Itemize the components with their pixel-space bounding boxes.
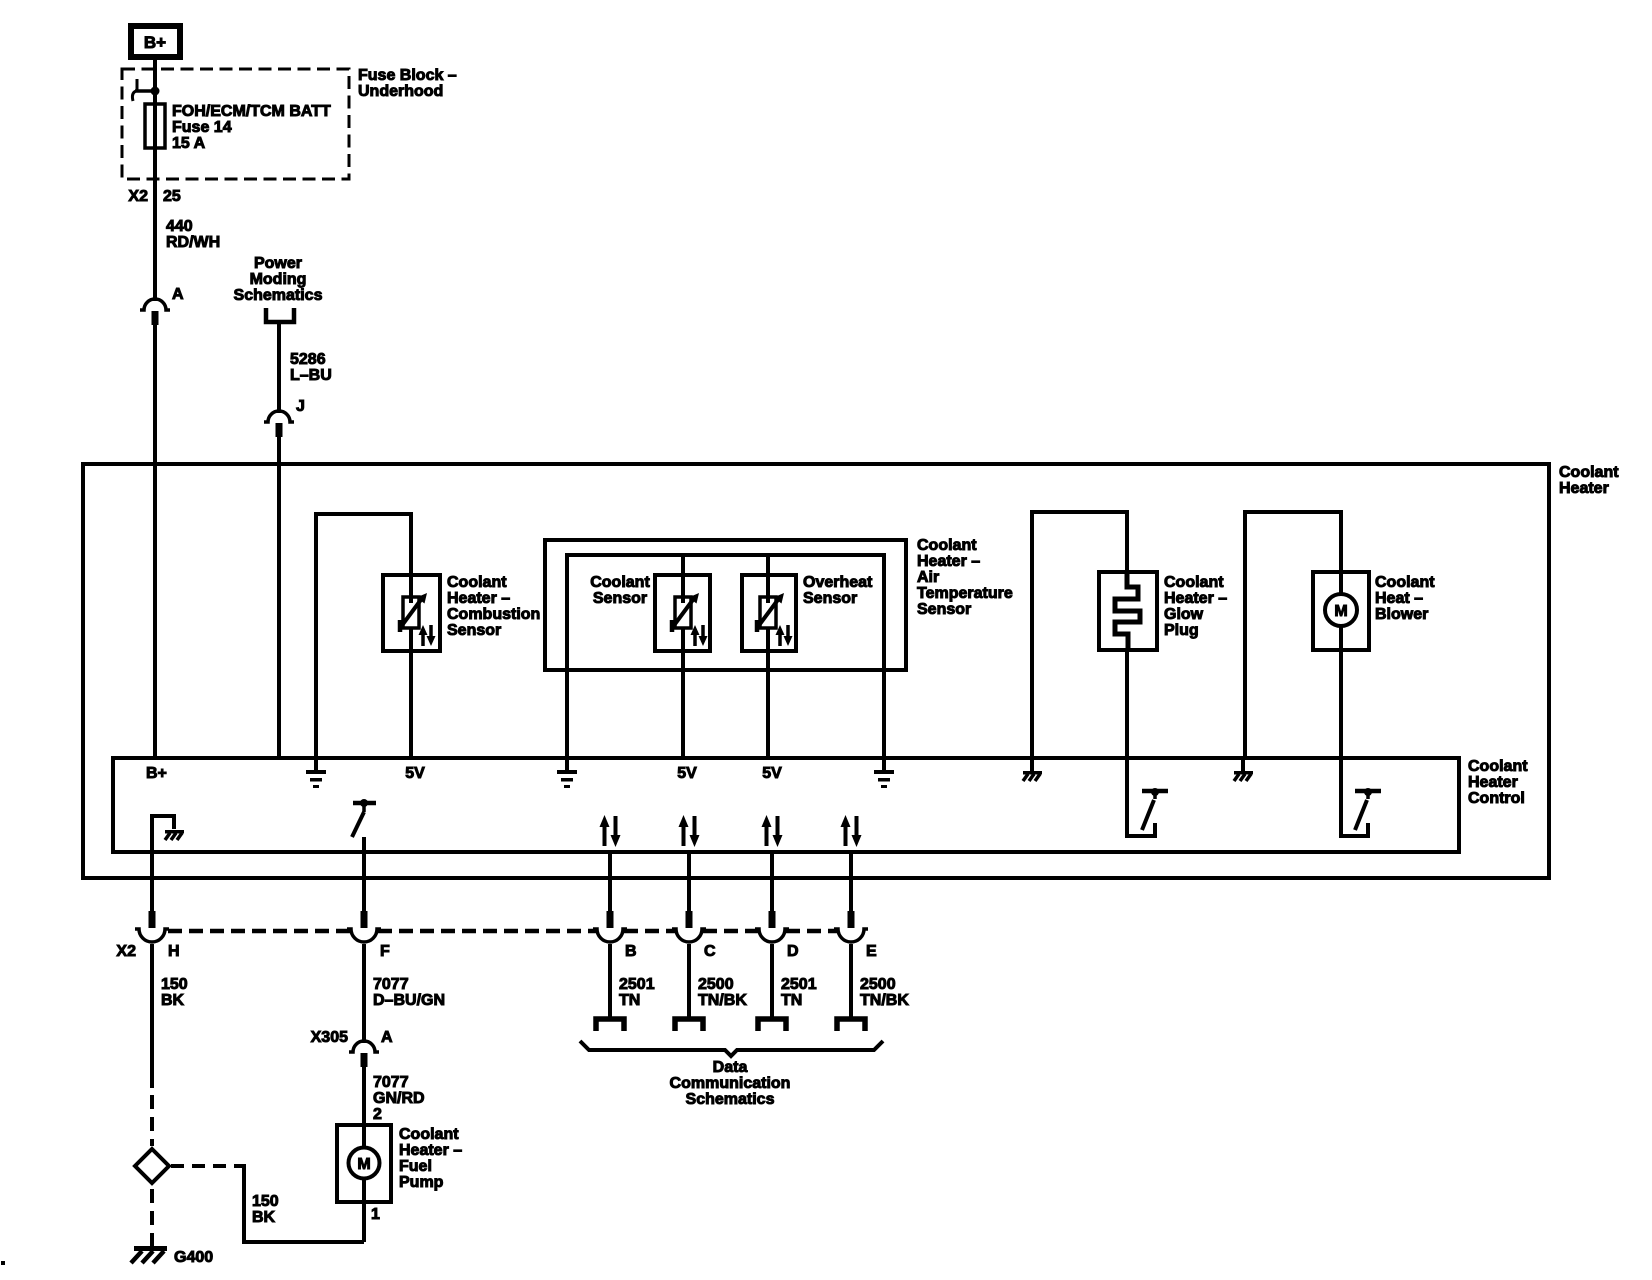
wire D to data bus (2501 TN) [770,944,774,1019]
svg-text:C: C [704,943,716,960]
battery feed terminal B+ [131,26,180,57]
bus bar tap [136,79,139,91]
wire coolant sensor to 5V [681,555,685,758]
wire B+ through fuse to connector A (circuit 440 RD/WH) [153,59,157,301]
earth ground (combustion sensor return) [314,758,318,770]
thermistor (coolant sensor) [675,597,691,628]
blower motor M [1339,572,1343,595]
ground G400 [134,1246,167,1251]
data arrows terminal B [603,824,607,846]
svg-text:Power: Power [254,255,302,272]
svg-text:Coolant: Coolant [917,537,977,554]
svg-text:TN: TN [619,992,640,1009]
svg-text:E: E [866,943,877,960]
fuel pump motor M [349,1148,380,1179]
svg-text:Temperature: Temperature [917,585,1013,602]
svg-text:TN/BK: TN/BK [698,992,747,1009]
internal ground (150 BK output) [152,816,174,852]
svg-text:Fuse Block –: Fuse Block – [358,67,457,84]
svg-text:2500: 2500 [860,976,896,993]
svg-text:TN: TN [781,992,802,1009]
wire overheat sensor to 5V [766,555,770,758]
svg-text:D: D [787,943,799,960]
dashed wire splice to G400 [150,1189,154,1246]
wire connector H down (150 BK) [150,944,154,1088]
svg-text:5286: 5286 [290,351,326,368]
svg-text:Overheat: Overheat [803,574,873,591]
wire data B to connector [608,852,612,914]
wire blower ground loop [1245,512,1341,758]
wire bracket to connector J (circuit 5286 L-BU) [277,324,281,413]
svg-text:Coolant: Coolant [1375,574,1435,591]
svg-text:Coolant: Coolant [590,574,650,591]
svg-text:H: H [168,943,180,960]
off-page bracket Power Moding [266,308,294,322]
svg-text:RD/WH: RD/WH [166,234,220,251]
svg-text:F: F [380,943,390,960]
off-page terminal E [837,1019,865,1031]
svg-text:B+: B+ [144,33,166,52]
svg-text:5V: 5V [677,765,697,782]
svg-text:Underhood: Underhood [358,83,443,100]
svg-text:Coolant: Coolant [447,574,507,591]
dashed wire splice to pump return [171,1164,238,1168]
sensor box Overheat Sensor [742,575,796,651]
dashed wire to splice [150,1095,154,1146]
svg-text:7077: 7077 [373,976,409,993]
svg-text:Heater: Heater [1559,480,1609,497]
thermistor (combustion sensor) [403,597,419,628]
svg-text:7077: 7077 [373,1074,409,1091]
svg-text:Communication: Communication [670,1075,791,1092]
switch (blower driver) [1341,758,1368,836]
connector H [149,911,156,928]
wire data C to connector [687,852,691,914]
svg-text:5V: 5V [762,765,782,782]
connector X305 A [349,1041,379,1052]
svg-text:X305: X305 [311,1029,348,1046]
svg-text:Sensor: Sensor [803,590,857,607]
artifact dot [1,1261,5,1265]
sensor box Coolant Sensor [655,575,710,651]
off-page terminal B [596,1019,624,1031]
svg-text:Fuse 14: Fuse 14 [172,119,232,136]
brace Data Communication [580,1041,883,1056]
module box Coolant Heater Control [113,758,1459,852]
splice (diamond) [135,1149,169,1183]
component box Coolant Heat - Blower [1313,572,1369,650]
wire control ground to connector H [150,852,154,914]
junction dot [151,87,160,96]
component box Coolant Heater - Fuel Pump [337,1125,391,1202]
wire pump return (150 BK) [238,1166,364,1242]
svg-text:Control: Control [1468,790,1525,807]
earth ground (air temp sensor return left) [565,758,569,770]
svg-text:2: 2 [373,1106,382,1123]
svg-text:Schematics: Schematics [234,287,323,304]
svg-text:Moding: Moding [250,271,307,288]
wire B to data bus (2501 TN) [608,944,612,1019]
off-page terminal D [758,1019,786,1031]
svg-text:GN/RD: GN/RD [373,1090,425,1107]
svg-text:Data: Data [713,1059,748,1076]
svg-text:TN/BK: TN/BK [860,992,909,1009]
svg-text:Glow: Glow [1164,606,1204,623]
svg-text:Coolant: Coolant [1468,758,1528,775]
wire glow plug ground loop [1032,512,1127,758]
data arrows terminal E [844,824,848,846]
connector B [607,911,614,928]
wire glow plug to switch [1125,650,1129,758]
svg-text:5V: 5V [405,765,425,782]
thermistor (overheat sensor) [760,597,776,628]
wire blower to switch [1339,626,1343,758]
svg-text:Coolant: Coolant [1164,574,1224,591]
signal arrows (coolant sensor) [693,633,697,646]
svg-text:Sensor: Sensor [593,590,647,607]
svg-text:25: 25 [163,188,181,205]
svg-text:Blower: Blower [1375,606,1428,623]
connector J (in-line) [264,411,294,422]
svg-text:X2: X2 [128,188,148,205]
svg-text:M: M [357,1156,370,1173]
signal arrows (combustion sensor) [421,633,425,646]
sensor enclosure Coolant Heater - Air Temperature Sensor [545,540,906,670]
svg-text:2501: 2501 [781,976,817,993]
svg-text:B: B [625,943,637,960]
svg-text:2501: 2501 [619,976,655,993]
svg-text:D–BU/GN: D–BU/GN [373,992,445,1009]
svg-text:Fuel: Fuel [399,1158,432,1175]
wire data D to connector [770,852,774,914]
sensor box Coolant Heater - Combustion Sensor [383,575,440,651]
chassis ground (blower return) [1241,758,1245,771]
svg-text:Heater –: Heater – [399,1142,462,1159]
svg-text:Heater: Heater [1468,774,1518,791]
svg-text:Pump: Pump [399,1174,444,1191]
connector D [769,911,776,928]
svg-text:150: 150 [161,976,188,993]
connector X2 boundary (dashed) [168,929,351,934]
wire combustion sensor ground loop [316,514,411,758]
svg-text:Sensor: Sensor [447,622,501,639]
svg-text:G400: G400 [174,1249,213,1266]
svg-text:A: A [172,286,184,303]
signal arrows (overheat sensor) [778,633,782,646]
svg-text:FOH/ECM/TCM BATT: FOH/ECM/TCM BATT [172,103,331,120]
connector A (in-line) [140,299,170,310]
fuse F14 15A [145,104,165,148]
chassis ground (glow plug return) [1030,758,1034,771]
wire fuel pump to return [362,1179,366,1242]
wire C to data bus (2500 TN/BK) [687,944,691,1019]
svg-text:J: J [296,398,305,415]
svg-text:440: 440 [166,218,193,235]
svg-text:1: 1 [371,1206,380,1223]
svg-text:2500: 2500 [698,976,734,993]
svg-text:Coolant: Coolant [1559,464,1619,481]
svg-text:X2: X2 [116,943,136,960]
svg-text:A: A [381,1029,393,1046]
earth ground (air temp sensor return right) [882,758,886,770]
svg-text:Coolant: Coolant [399,1126,459,1143]
svg-text:BK: BK [161,992,185,1009]
wire X305 to fuel pump (7077 GN/RD) [362,1067,366,1147]
svg-text:B+: B+ [146,765,167,782]
wire connector J to coolant heater control [277,437,281,758]
svg-text:M: M [1334,603,1347,620]
svg-text:Air: Air [917,569,939,586]
data arrows terminal D [765,824,769,846]
fuse block underhood (dashed box) [122,69,349,179]
wire connector A to coolant heater control B+ [153,325,157,758]
svg-text:Plug: Plug [1164,622,1199,639]
wire data E to connector [849,852,853,914]
connector C [686,911,693,928]
svg-text:15 A: 15 A [172,135,206,152]
connector E [848,911,855,928]
svg-text:Sensor: Sensor [917,601,971,618]
switch (fuel pump driver) [353,801,376,806]
wire combustion sensor to 5V [409,575,413,758]
glow plug heating element [1115,572,1140,650]
svg-text:Heater –: Heater – [1164,590,1227,607]
off-page terminal C [675,1019,703,1031]
component box Coolant Heater [83,464,1549,878]
svg-text:Heat –: Heat – [1375,590,1423,607]
svg-text:L–BU: L–BU [290,367,332,384]
svg-text:BK: BK [252,1209,276,1226]
wire connector F down (7077 D-BU/GN) [362,944,366,1043]
svg-text:Heater –: Heater – [917,553,980,570]
switch (glow plug driver) [1127,758,1155,836]
wire air temp sensor ground loop [567,555,884,758]
svg-text:Combustion: Combustion [447,606,540,623]
wire fuel pump feed to connector F [362,837,366,914]
svg-text:150: 150 [252,1193,279,1210]
svg-text:Schematics: Schematics [686,1091,775,1108]
component box Coolant Heater - Glow Plug [1099,572,1157,650]
connector F [361,911,368,928]
data arrows terminal C [682,824,686,846]
svg-text:Heater –: Heater – [447,590,510,607]
wire E to data bus (2500 TN/BK) [849,944,853,1019]
